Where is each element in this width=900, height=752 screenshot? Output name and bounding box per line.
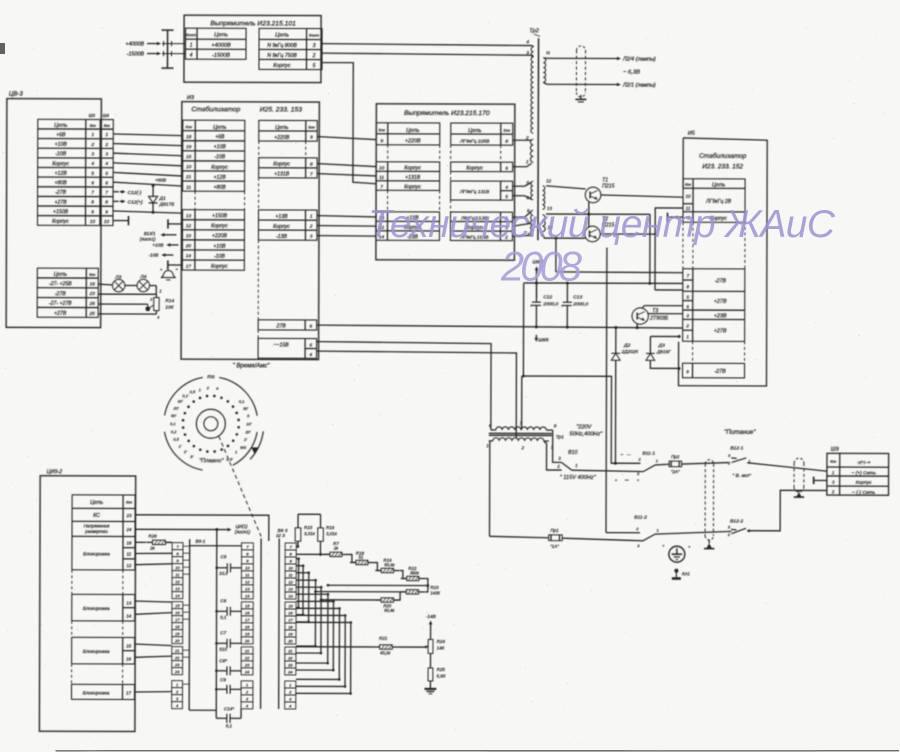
svg-text:6: 6	[105, 180, 108, 185]
svg-text:23: 23	[287, 662, 293, 667]
svg-text:14: 14	[288, 593, 293, 598]
svg-text:12: 12	[546, 178, 552, 183]
svg-text:1: 1	[105, 132, 108, 137]
svg-text:11: 11	[379, 175, 384, 180]
svg-text:11: 11	[175, 572, 179, 577]
table: rectifier input pins (Конт/Цепь)	[185, 28, 246, 59]
svg-text:19: 19	[288, 631, 293, 636]
svg-text:Конт: Конт	[186, 32, 197, 37]
wire rectifier pin5 (Корпус) down to U4 pin7	[322, 63, 377, 184]
svg-text:20': 20'	[244, 429, 250, 434]
wire И5 pin7 run	[556, 271, 683, 274]
svg-text:13: 13	[175, 586, 180, 591]
Tr2 primary winding second section	[530, 139, 533, 162]
svg-text:12: 12	[175, 579, 180, 584]
svg-text:развертки: развертки	[84, 529, 108, 534]
svg-text:R24: R24	[437, 639, 446, 644]
svg-text:С13: С13	[573, 294, 582, 300]
resistor R21 40,2к	[380, 645, 393, 649]
svg-text:24: 24	[287, 669, 293, 674]
table: И3 left pins group1	[183, 120, 245, 191]
svg-text:Ш3: Ш3	[89, 113, 96, 118]
svg-text:19: 19	[245, 631, 250, 636]
svg-text:R23: R23	[430, 585, 439, 590]
svg-text:+80В: +80В	[55, 180, 68, 186]
svg-text:-27В: -27В	[55, 190, 66, 196]
svg-text:26: 26	[89, 301, 96, 306]
svg-text:20: 20	[287, 638, 293, 643]
capacitor С14*	[216, 717, 227, 719]
jog R18-R19	[374, 563, 381, 571]
svg-text:+220В: +220В	[212, 233, 228, 239]
svg-text:~ (+) Сеть: ~ (+) Сеть	[851, 470, 876, 476]
svg-text:4: 4	[190, 53, 193, 59]
svg-text:2: 2	[309, 224, 313, 229]
wire riser corner to В11-1	[523, 376, 641, 463]
wire И5 pin6 to Т3	[644, 305, 682, 307]
svg-text:18: 18	[175, 624, 180, 629]
svg-text:Корпус: Корпус	[856, 480, 873, 486]
table: ЦВ-3 lower connector	[37, 268, 98, 317]
wire В12-2 up to Ш9 pin2	[747, 490, 827, 531]
svg-text:-10В: -10В	[148, 252, 158, 257]
svg-text:9: 9	[105, 209, 108, 214]
wire rectifier pin3 to Tr2 pin4	[322, 44, 532, 46]
svg-text:14: 14	[186, 253, 192, 258]
svg-text:Пр1: Пр1	[550, 528, 559, 533]
svg-text:10: 10	[90, 219, 96, 224]
svg-text:9: 9	[310, 135, 313, 140]
svg-text:23: 23	[244, 662, 250, 667]
svg-text:1: 1	[310, 214, 313, 219]
svg-text:2': 2'	[243, 437, 247, 442]
svg-text:15: 15	[126, 643, 132, 648]
svg-text:7: 7	[105, 190, 108, 195]
wires И3 row5 down to Тр1	[316, 342, 491, 430]
svg-text:+27В: +27В	[714, 299, 727, 305]
jog R19-R22	[400, 571, 407, 579]
wire В12-1 to Ш9 pin1	[747, 463, 827, 471]
svg-text:Ш4: Ш4	[103, 113, 110, 118]
transformer Tr2 core	[537, 38, 540, 240]
svg-text:Ш 3: Ш 3	[276, 533, 285, 539]
svg-text:"1А": "1А"	[550, 544, 559, 549]
svg-text:4: 4	[309, 352, 312, 357]
svg-text:-27- +27В: -27- +27В	[49, 301, 72, 307]
Tr2 winding 131V section	[531, 181, 533, 200]
svg-text:13: 13	[288, 586, 293, 591]
svg-text:12: 12	[288, 579, 293, 584]
svg-text:16: 16	[175, 610, 180, 615]
svg-text:" 115V 400Hz": " 115V 400Hz"	[560, 475, 597, 481]
svg-text:+150В: +150В	[53, 209, 69, 215]
jog R22-R23 down	[425, 579, 428, 592]
table: ЦИ9-2 Блокировка 15/16	[72, 637, 135, 664]
svg-text:"Питание": "Питание"	[724, 429, 756, 436]
svg-text:-27В: -27В	[715, 278, 727, 284]
svg-text:(лист1): (лист1)	[140, 236, 156, 241]
svg-text:+220В: +220В	[274, 135, 290, 141]
wires ЦВ-3 Ш4 to И3 rows 1-6	[113, 134, 182, 136]
svg-text:8: 8	[91, 200, 94, 205]
svg-text:ЦВ-3: ЦВ-3	[9, 92, 23, 98]
svg-text:Ш8/8: Ш8/8	[538, 337, 549, 342]
svg-text:0,1: 0,1	[239, 399, 245, 404]
dashed cell continuation U4 right	[450, 145, 452, 162]
svg-text:Напряжения: Напряжения	[84, 523, 110, 528]
svg-text:21: 21	[287, 648, 292, 653]
svg-text:24: 24	[126, 527, 133, 532]
svg-text:Корпус: Корпус	[273, 162, 290, 168]
svg-text:10: 10	[186, 164, 192, 169]
svg-text:Технический центр ЖАиС: Технический центр ЖАиС	[368, 203, 836, 246]
svg-text:-y(+)--o: -y(+)--o	[857, 459, 871, 464]
label Ш8/8 arrow	[535, 335, 537, 340]
svg-text:10: 10	[288, 565, 293, 570]
svg-text:9: 9	[91, 209, 94, 214]
resistor R25 5,6К	[428, 668, 433, 681]
svg-text:Корпус: Корпус	[211, 223, 228, 229]
svg-text:Цепь: Цепь	[54, 272, 67, 278]
vertical Т1-Т2 link	[588, 202, 590, 227]
svg-text:"2А": "2А"	[671, 469, 680, 474]
svg-text:Д3: Д3	[658, 343, 665, 349]
svg-text:10: 10	[379, 165, 385, 170]
svg-text:10: 10	[186, 233, 192, 238]
svg-text:Корпус: Корпус	[211, 165, 228, 171]
svg-text:Цепь: Цепь	[213, 125, 226, 131]
terminal Кл1	[674, 569, 678, 573]
svg-text:10К: 10К	[165, 305, 174, 311]
svg-text:21: 21	[185, 174, 192, 179]
svg-text:5: 5	[91, 171, 94, 176]
svg-text:В12-2: В12-2	[730, 518, 743, 524]
svg-text:2к: 2к	[149, 546, 156, 551]
svg-text:-10В: -10В	[214, 154, 225, 160]
svg-text:С12: С12	[543, 294, 552, 300]
wires И3 row4 down to Тр1 lower tap	[316, 351, 516, 438]
svg-text:2Д202К: 2Д202К	[621, 349, 639, 354]
svg-text:+: +	[530, 303, 533, 308]
capacitor С6 0,1	[217, 610, 228, 612]
svg-text:18: 18	[126, 540, 132, 545]
fuse Пр1 1А	[549, 535, 563, 541]
svg-text:2': 2'	[183, 449, 187, 454]
protective earth circle	[669, 546, 685, 562]
dial dot ring	[237, 426, 240, 429]
svg-text:5: 5	[309, 342, 312, 347]
svg-text:Кон: Кон	[126, 500, 132, 504]
svg-text:12: 12	[245, 579, 250, 584]
capacitor С5 10,0	[217, 567, 228, 569]
svg-text:Блокировка: Блокировка	[83, 606, 110, 612]
wire R23 left to matrix	[316, 591, 407, 593]
resistor R16 3,01к	[318, 528, 324, 541]
svg-text:N 9кГц 750В: N 9кГц 750В	[267, 53, 297, 59]
table: ЦИ9-2 Блокировка 13/14	[72, 594, 135, 621]
switch В10	[553, 430, 562, 462]
svg-text:Цепь: Цепь	[214, 32, 228, 38]
svg-text:7: 7	[380, 184, 383, 189]
wire row10 Корпус terminator	[113, 220, 128, 222]
svg-text:20: 20	[174, 638, 180, 643]
svg-text:10': 10'	[246, 421, 251, 426]
svg-text:0,2: 0,2	[171, 429, 177, 434]
svg-text:10,0: 10,0	[219, 571, 228, 576]
svg-text:И5: И5	[688, 131, 696, 137]
wire В10 to В11-1 contact 3	[572, 470, 644, 471]
jog R7-R18	[348, 554, 356, 562]
capacitor С13 2000,0	[566, 283, 568, 302]
wire Т1 collector to И5 pin10	[601, 195, 683, 197]
wire pin 17 to wafer	[135, 691, 172, 694]
wire Т3 collector to И5 pin3	[648, 313, 683, 315]
table: И3 right pins group4	[258, 320, 317, 330]
svg-text:5,6К: 5,6К	[437, 673, 446, 678]
svg-text:0,5: 0,5	[190, 389, 196, 394]
svg-text:В10: В10	[568, 450, 577, 456]
svg-text:1: 1	[657, 528, 659, 533]
svg-text:+6В: +6В	[215, 134, 225, 140]
svg-text:18: 18	[288, 624, 293, 629]
svg-text:2: 2	[685, 323, 689, 328]
svg-text:3,01к: 3,01к	[326, 531, 338, 536]
bus Ш8 lower (И3 pin6 to И5 pin2)	[317, 325, 683, 328]
Ш9 pin3 Корпус terminator	[814, 479, 827, 481]
svg-text:2: 2	[90, 142, 94, 147]
svg-text:11: 11	[288, 572, 292, 577]
svg-text:20: 20	[244, 638, 250, 643]
wire R21 row	[296, 646, 374, 648]
svg-text:~ (-) Сеть: ~ (-) Сеть	[852, 490, 876, 496]
block: stabilizer И3 (И25.233.153)	[181, 102, 319, 360]
svg-text:10: 10	[104, 219, 110, 224]
svg-text:14К: 14К	[437, 645, 445, 650]
svg-text:16: 16	[90, 281, 96, 286]
svg-text:-1500В: -1500В	[127, 51, 145, 57]
svg-text:~ 6,3В: ~ 6,3В	[623, 70, 640, 76]
svg-text:R16: R16	[326, 525, 335, 530]
wires U4 pins 4,5 to Tr2 131V winding	[513, 182, 532, 186]
wires И3 right group1 to U4 pin9	[317, 137, 376, 140]
svg-text:17: 17	[175, 617, 180, 622]
svg-text:16: 16	[245, 610, 250, 615]
svg-text:15: 15	[186, 154, 192, 159]
svg-text:N: N	[546, 50, 550, 56]
svg-text:16: 16	[126, 656, 132, 661]
table: И3 right pins group3	[258, 210, 317, 240]
svg-text:15: 15	[175, 603, 180, 608]
svg-text:22: 22	[287, 655, 293, 660]
svg-text:510: 510	[219, 647, 227, 652]
svg-text:С9: С9	[220, 677, 226, 682]
svg-text:И25. 233. 153: И25. 233. 153	[260, 106, 302, 113]
svg-text:143К: 143К	[430, 590, 440, 595]
svg-text:С7: С7	[220, 630, 226, 635]
svg-text:+80В: +80В	[214, 185, 227, 191]
svg-text:15: 15	[245, 603, 250, 608]
diode Д2 2Д202К	[615, 328, 617, 354]
wire Напряжения развертки with arrow ЦИ1	[135, 528, 225, 530]
svg-text:" Время/Амс": " Время/Амс"	[233, 363, 271, 369]
svg-text:4: 4	[105, 161, 108, 166]
scanner page edge artifact bottom	[55, 750, 899, 751]
svg-text:Блокировка: Блокировка	[83, 690, 110, 696]
svg-text:0,5: 0,5	[173, 437, 179, 442]
svg-text:Блокировка: Блокировка	[83, 649, 110, 655]
wires И3 right rows1,2,3 to U4 pins13,12,14	[317, 216, 376, 217]
svg-text:Цепь: Цепь	[54, 123, 67, 129]
svg-text:0,1: 0,1	[170, 421, 176, 426]
Tr2 winding 13.5V section	[531, 210, 534, 235]
И3 pin17 Корпус terminator	[168, 264, 181, 266]
junction riser to И5 pin7 wire	[554, 237, 557, 240]
svg-text:ЛГ9кГц 131В: ЛГ9кГц 131В	[459, 189, 490, 195]
svg-text:17: 17	[245, 617, 250, 622]
svg-text:13: 13	[126, 600, 132, 605]
svg-text:Цепь: Цепь	[468, 128, 481, 134]
dashed cell continuation U4 left	[387, 145, 389, 162]
switch wafer В9-1 boxes	[172, 543, 183, 550]
svg-text:90,4к: 90,4к	[384, 608, 395, 613]
svg-text:МS: МS	[240, 445, 246, 450]
svg-text:Цепь: Цепь	[406, 128, 419, 134]
svg-text:С8*: С8*	[219, 658, 227, 663]
svg-text:Тр2: Тр2	[529, 28, 540, 34]
svg-text:+12В: +12В	[55, 171, 68, 177]
svg-text:С5: С5	[220, 554, 226, 559]
svg-text:23: 23	[174, 662, 180, 667]
svg-text:П215: П215	[602, 183, 614, 189]
svg-text:1': 1'	[179, 443, 182, 448]
Tr2 secondary winding lower (pin 13-14)	[542, 215, 545, 232]
output arrow Л2/1	[617, 83, 621, 87]
svg-text:-13В: -13В	[276, 234, 287, 240]
wire rectifier pin2 to Tr2 pin3	[322, 53, 532, 55]
dashed mechanical link to В9	[218, 436, 261, 536]
capacitor ladder rail from pin24 wire	[215, 530, 218, 719]
transistor Т3 2Т903Б	[632, 308, 648, 324]
svg-text:23: 23	[126, 513, 133, 518]
svg-text:+10В: +10В	[55, 142, 68, 148]
svg-text:ЦИ9-2: ЦИ9-2	[47, 469, 63, 475]
svg-text:Выпрямитель И23.215.101: Выпрямитель И23.215.101	[210, 20, 296, 27]
svg-text:R14: R14	[165, 298, 174, 304]
resistor R18 51	[356, 560, 368, 564]
svg-text:-14В: -14В	[426, 614, 436, 619]
svg-text:3: 3	[526, 50, 529, 56]
svg-text:И3: И3	[187, 95, 195, 101]
svg-text:2Т903Б: 2Т903Б	[649, 316, 669, 322]
И3 pin12 Корпус terminator	[168, 223, 181, 225]
scan mark left edge	[0, 43, 5, 54]
svg-text:7: 7	[91, 190, 94, 195]
svg-text:21: 21	[174, 648, 179, 653]
svg-text:40,2к: 40,2к	[380, 650, 391, 655]
svg-text:2000,0: 2000,0	[542, 301, 558, 307]
table: U4 left pins	[376, 123, 440, 145]
table: ЦИ9-2 pins	[72, 495, 135, 570]
svg-text:Кон: Кон	[186, 125, 193, 129]
table: И3 right pins group2	[259, 158, 318, 178]
wire Т3 to bus	[636, 324, 638, 328]
svg-text:1: 1	[159, 289, 161, 294]
table: И5 upper cells	[683, 179, 745, 223]
wire row26 with wiper dot	[98, 303, 148, 305]
svg-text:21: 21	[244, 648, 249, 653]
wafer В9-1 common rail	[188, 539, 191, 710]
svg-text:17: 17	[126, 690, 132, 695]
transistor Т1 П215	[585, 187, 601, 203]
svg-text:В11-2: В11-2	[634, 515, 647, 521]
table: U4 right pins	[451, 123, 513, 145]
svg-text:0,1': 0,1'	[182, 393, 189, 398]
Tr2 secondary 6.3V winding	[543, 58, 546, 83]
wire R20 ends	[321, 599, 381, 601]
block: rectifier U2 (Выпрямитель И23.215.101)	[184, 15, 321, 82]
svg-text:10: 10	[686, 194, 692, 199]
Tr2 secondary winding upper (pin 12-13)	[542, 186, 544, 210]
wire lamps to R14 node	[155, 286, 157, 295]
svg-text:1: 1	[176, 682, 178, 687]
svg-text:Л2/4 (лампы): Л2/4 (лампы)	[622, 57, 656, 63]
svg-text:9: 9	[380, 138, 383, 144]
dashed continuation ЦИ9-2	[71, 570, 73, 594]
svg-text:2: 2	[521, 445, 525, 450]
resistor R20 90,4к	[381, 598, 393, 602]
svg-text:5': 5'	[190, 454, 193, 459]
svg-text:11: 11	[186, 184, 191, 189]
table: И3 right pins group1	[259, 120, 318, 141]
ground bar under R25	[425, 688, 437, 690]
svg-text:Цепь: Цепь	[712, 182, 725, 188]
svg-text:+12В: +12В	[214, 175, 227, 181]
svg-text:2: 2	[831, 489, 835, 494]
wire Т2 collector to И5 pin11 via riser	[600, 208, 683, 234]
svg-text:2000,0: 2000,0	[572, 301, 588, 307]
svg-text:50Hz,400Hz": 50Hz,400Hz"	[569, 431, 603, 437]
wire В11-2 to В12-2	[655, 531, 731, 534]
dashed continuation И3 right	[258, 141, 260, 158]
svg-text:27В: 27В	[276, 324, 287, 330]
dashed continuation И3 left	[194, 191, 196, 209]
svg-text:12: 12	[126, 563, 132, 568]
wire row8 through R16 to R7	[296, 553, 329, 555]
svg-text:19: 19	[175, 631, 180, 636]
svg-text:N 9кГц 800В: N 9кГц 800В	[267, 43, 297, 49]
svg-text:1: 1	[190, 43, 193, 49]
svg-text:2008: 2008	[500, 243, 582, 290]
svg-text:5,1: 5,1	[226, 723, 233, 728]
resistor R28 2к	[135, 541, 146, 543]
svg-text:Корпус: Корпус	[52, 219, 69, 225]
svg-text:+13В: +13В	[275, 214, 288, 220]
svg-text:10: 10	[175, 565, 180, 570]
rotary time dial	[196, 409, 225, 438]
svg-text:Кон: Кон	[104, 124, 110, 128]
svg-text:+27В: +27В	[54, 311, 67, 317]
input connector bars	[166, 30, 168, 68]
svg-text:Корпус: Корпус	[404, 185, 421, 191]
svg-text:1: 1	[235, 450, 237, 455]
svg-text:14: 14	[126, 613, 132, 618]
block: stabilizer И5 (И23.233.152)	[678, 138, 767, 386]
dial pointer	[251, 447, 258, 454]
svg-text:"220V: "220V	[576, 424, 592, 430]
svg-text:Кон: Кон	[830, 460, 836, 464]
connector ladder Ш3 boxes	[242, 543, 254, 550]
svg-text:КС: КС	[93, 513, 100, 519]
